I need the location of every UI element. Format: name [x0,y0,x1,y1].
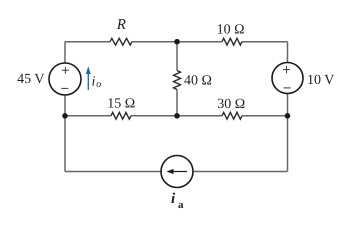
svg-text:i: i [92,75,96,90]
svg-text:15 Ω: 15 Ω [107,96,135,111]
svg-text:10 Ω: 10 Ω [217,23,245,38]
svg-text:10 V: 10 V [307,73,334,88]
svg-text:R: R [116,17,126,33]
svg-text:45 V: 45 V [17,72,44,87]
svg-text:a: a [178,199,184,211]
svg-text:o: o [96,79,101,90]
svg-text:30 Ω: 30 Ω [217,97,245,112]
svg-text:40 Ω: 40 Ω [184,73,212,88]
